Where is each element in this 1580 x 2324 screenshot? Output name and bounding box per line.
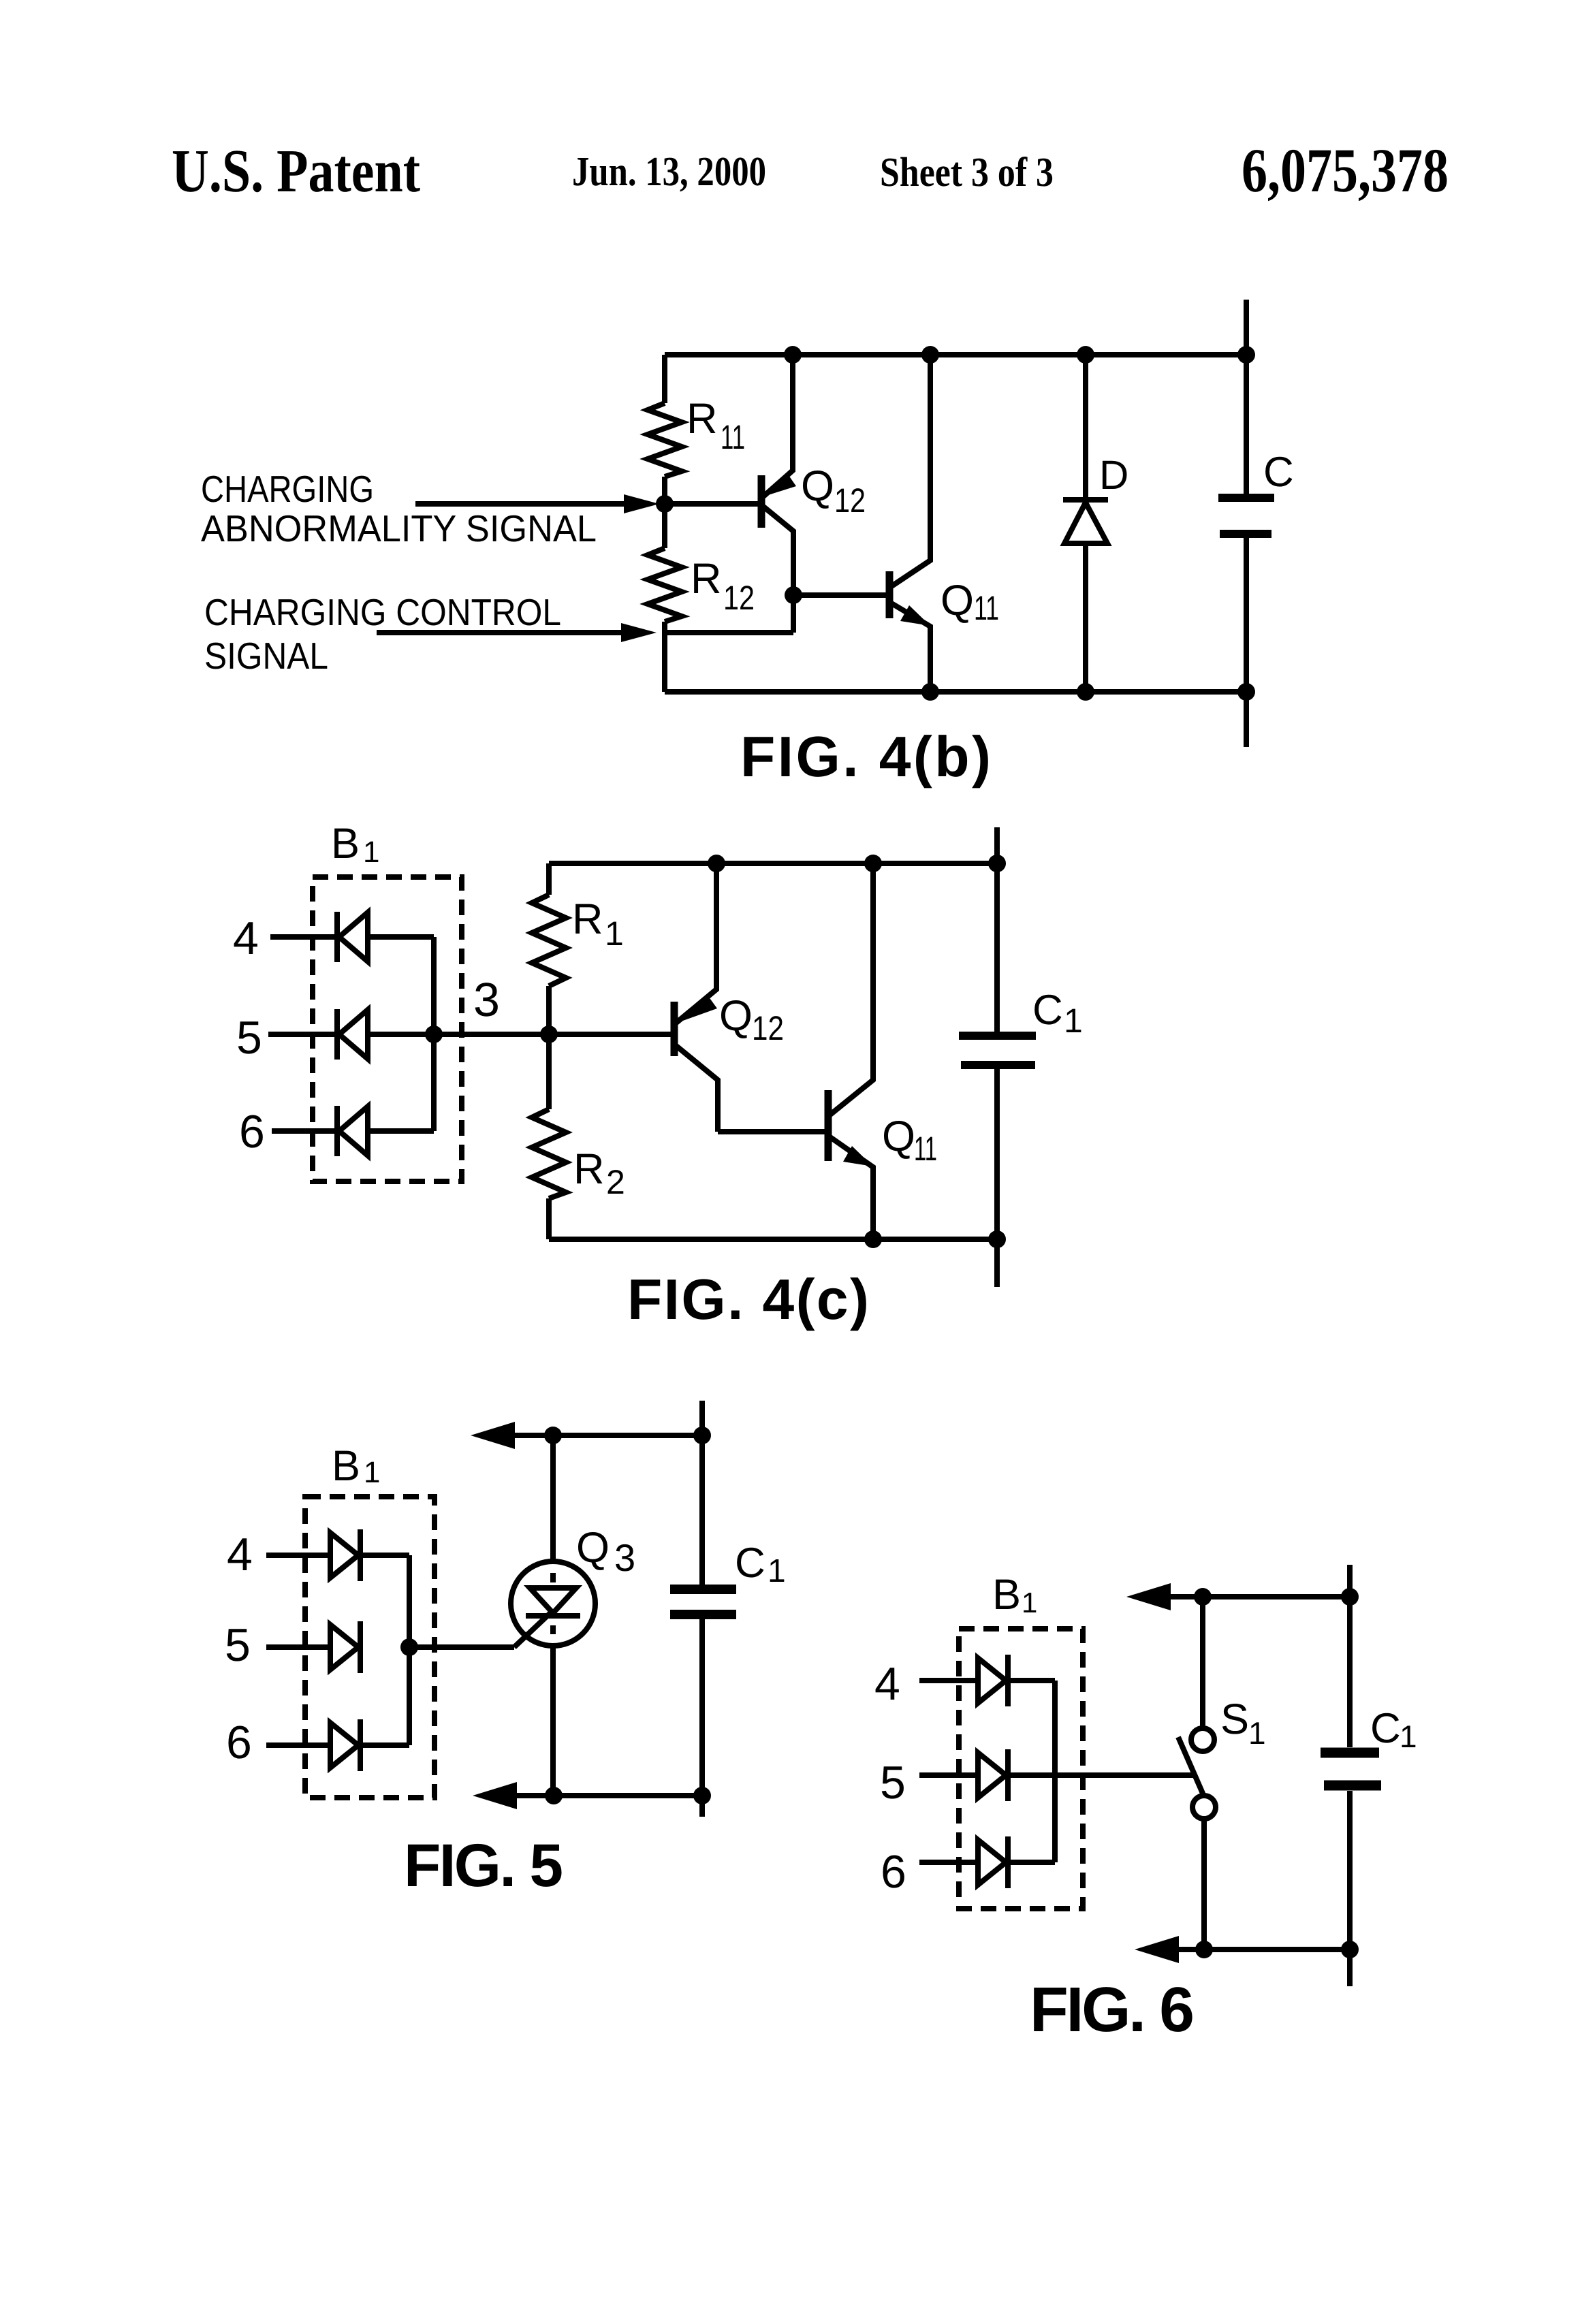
svg-text:1: 1 xyxy=(1248,1715,1266,1751)
svg-text:B: B xyxy=(331,820,360,867)
node: abnormality junction xyxy=(656,495,674,513)
node: Q3 top junction xyxy=(544,1427,562,1444)
svg-text:Jun. 13, 2000: Jun. 13, 2000 xyxy=(572,149,766,195)
wire pin 4 xyxy=(919,1678,978,1683)
wire: diode a output xyxy=(360,1553,409,1558)
wire: left vertical upper lead xyxy=(662,355,667,403)
wire: charging abnormality signal input with arrow xyxy=(415,501,627,507)
svg-text:C: C xyxy=(1370,1705,1401,1752)
wire pin 4 xyxy=(270,934,335,940)
node: Q11 collector on top rail xyxy=(864,855,882,872)
svg-text:ABNORMALITY SIGNAL: ABNORMALITY SIGNAL xyxy=(201,507,597,550)
node: top rail right xyxy=(1341,1588,1359,1606)
resistor R2 xyxy=(532,1109,566,1198)
wire: B1 output bus vertical xyxy=(1052,1681,1058,1862)
diode B1-b (anode left) xyxy=(978,1749,1008,1801)
svg-text:FIG. 5: FIG. 5 xyxy=(404,1831,563,1899)
wire: diode c output xyxy=(1008,1860,1055,1865)
svg-text:Q: Q xyxy=(576,1524,610,1572)
node: Q12 emitter on top rail xyxy=(784,346,802,364)
diode B1-a (anode left) xyxy=(330,1529,360,1581)
node: D top on rail xyxy=(1077,346,1094,364)
node: bottom rail right xyxy=(693,1787,711,1804)
label: CHARGING CONTROL SIGNAL xyxy=(204,591,561,677)
label B1 xyxy=(331,820,379,869)
svg-text:U.S. Patent: U.S. Patent xyxy=(172,138,420,205)
svg-text:4: 4 xyxy=(227,1529,253,1580)
resistor R11 xyxy=(648,403,682,477)
wire: bottom rail with left arrow xyxy=(1173,1947,1350,1952)
label: CHARGING ABNORMALITY SIGNAL xyxy=(201,468,597,550)
wire: control junction to Q12 collector foot xyxy=(665,630,793,635)
svg-text:1: 1 xyxy=(768,1553,786,1589)
svg-text:1: 1 xyxy=(605,914,624,953)
resistor R1 xyxy=(532,895,566,986)
svg-text:4: 4 xyxy=(874,1658,900,1710)
node: C top on rail xyxy=(1237,346,1255,364)
wire: R1 to node xyxy=(546,986,552,1034)
svg-text:11: 11 xyxy=(721,418,745,456)
svg-text:12: 12 xyxy=(723,579,755,617)
svg-text:R: R xyxy=(572,895,603,943)
svg-text:CHARGING CONTROL: CHARGING CONTROL xyxy=(204,591,561,633)
transistor Q12 (pnp) xyxy=(674,863,784,1132)
diode B1-a (cathode left) xyxy=(337,912,368,962)
svg-text:2: 2 xyxy=(606,1163,625,1201)
switch S1 xyxy=(1178,1597,1266,1949)
svg-text:B: B xyxy=(332,1442,360,1490)
wire: B1 output bus vertical xyxy=(431,937,437,1131)
wire pin 5 xyxy=(919,1772,978,1778)
wire: diode a output xyxy=(1008,1678,1055,1683)
node: C1 bottom xyxy=(988,1230,1006,1248)
wire: node to Q12 base xyxy=(665,501,759,507)
node: B1 common node xyxy=(425,1025,443,1043)
svg-text:R: R xyxy=(573,1145,605,1193)
svg-text:Q: Q xyxy=(941,577,974,624)
transistor Q11 (npn) xyxy=(889,355,999,692)
diode B1-a (anode left) xyxy=(978,1655,1008,1706)
wire pin 5 xyxy=(268,1032,335,1037)
svg-text:Sheet 3 of 3: Sheet 3 of 3 xyxy=(880,150,1054,195)
svg-text:FIG. 6: FIG. 6 xyxy=(1030,1974,1195,2045)
diode B1-c (cathode left) xyxy=(337,1106,368,1156)
node: C1 top xyxy=(988,855,1006,872)
svg-text:CHARGING: CHARGING xyxy=(201,468,374,510)
svg-text:5: 5 xyxy=(880,1757,906,1809)
wire: diode c output xyxy=(368,1128,434,1134)
wire: bottom rail xyxy=(549,1237,997,1242)
node: B1 common node xyxy=(400,1638,418,1656)
node: Q11 emitter on bottom rail xyxy=(921,683,939,701)
wire: Q3 cathode down xyxy=(550,1646,556,1796)
resistor R12 xyxy=(648,548,682,622)
wire: bottom rail with left arrow xyxy=(511,1793,702,1798)
svg-text:11: 11 xyxy=(914,1130,937,1168)
node: switch bottom junction xyxy=(1195,1941,1213,1958)
wire pin 6 xyxy=(919,1860,978,1865)
svg-text:6,075,378: 6,075,378 xyxy=(1242,136,1449,205)
svg-text:FIG. 4(c): FIG. 4(c) xyxy=(627,1267,869,1331)
node: Q12 collector / Q11 base junction xyxy=(785,586,802,604)
wire: top rail xyxy=(665,352,1246,357)
wire: node 3 to resistor chain xyxy=(434,1032,549,1037)
wire: R2 to bottom rail xyxy=(546,1198,552,1239)
thyristor Q3 xyxy=(511,1524,635,1647)
node: switch top junction xyxy=(1194,1588,1212,1606)
capacitor C1 xyxy=(1321,1565,1417,1986)
wire: diode c output xyxy=(360,1742,409,1748)
svg-text:6: 6 xyxy=(239,1106,265,1158)
wire: lead R12 to control junction xyxy=(662,622,667,633)
wire: top rail with left arrow xyxy=(509,1433,702,1438)
wire: diode a output xyxy=(368,934,434,940)
node: Q3 bottom junction xyxy=(545,1787,563,1804)
label B1 xyxy=(332,1442,380,1490)
node: Q11 collector on top rail xyxy=(921,346,939,364)
wire pin 5 xyxy=(266,1644,330,1650)
diode block B1 dashed box xyxy=(305,1497,434,1798)
svg-text:1: 1 xyxy=(1064,1002,1083,1040)
svg-text:12: 12 xyxy=(834,481,866,520)
wire: top rail with left arrow xyxy=(1165,1594,1350,1599)
wire: lead node to R12 xyxy=(662,504,667,548)
wire pin 6 xyxy=(272,1128,335,1134)
wire: Q12 collector to Q11 base xyxy=(793,592,887,598)
label B1 xyxy=(992,1571,1037,1619)
capacitor C1 xyxy=(959,827,1083,1287)
node: bottom rail right xyxy=(1341,1941,1359,1958)
transistor Q11 (npn) xyxy=(828,863,937,1239)
wire pin 4 xyxy=(266,1553,330,1558)
diode B1-b (cathode left) xyxy=(337,1009,368,1060)
wire: R chain top lead xyxy=(546,863,552,895)
node: Q12 emitter on top rail xyxy=(708,855,725,872)
svg-text:1: 1 xyxy=(1400,1719,1417,1754)
wire: diode b output xyxy=(368,1032,434,1037)
wire: output to switch blade xyxy=(1008,1772,1193,1778)
capacitor C xyxy=(1218,300,1294,747)
svg-text:C: C xyxy=(1032,987,1063,1034)
svg-text:SIGNAL: SIGNAL xyxy=(204,635,328,677)
capacitor C1 xyxy=(670,1401,786,1817)
wire: B1 output bus vertical xyxy=(407,1555,412,1745)
svg-text:12: 12 xyxy=(752,1009,784,1047)
wire: charging control signal input with arrow xyxy=(377,630,624,635)
node: top rail right xyxy=(693,1427,711,1444)
transistor Q12 (pnp) xyxy=(761,355,866,633)
diode block B1 dashed box xyxy=(959,1629,1083,1909)
svg-text:6: 6 xyxy=(226,1717,252,1768)
svg-text:5: 5 xyxy=(225,1619,251,1671)
svg-text:4: 4 xyxy=(233,912,259,964)
svg-text:B: B xyxy=(992,1571,1021,1619)
wire: top rail xyxy=(549,861,997,866)
svg-text:3: 3 xyxy=(473,973,500,1026)
wire: node to Q3 gate xyxy=(409,1644,514,1650)
wire: lead R11 to node xyxy=(662,477,667,504)
node: Q11 emitter on bottom rail xyxy=(864,1230,882,1248)
svg-text:Q: Q xyxy=(719,992,753,1040)
wire: Q3 anode up xyxy=(550,1435,556,1561)
svg-text:Q: Q xyxy=(801,462,834,510)
svg-text:3: 3 xyxy=(614,1536,635,1579)
svg-text:R: R xyxy=(686,395,718,443)
diode B1-c (anode left) xyxy=(330,1719,360,1771)
svg-text:S: S xyxy=(1220,1696,1249,1743)
diode B1-b (anode left) xyxy=(330,1621,360,1673)
wire: bottom rail xyxy=(665,689,1246,695)
svg-text:D: D xyxy=(1099,452,1128,498)
header xyxy=(172,136,1449,205)
svg-text:1: 1 xyxy=(364,1456,380,1489)
wire pin 6 xyxy=(266,1742,330,1748)
svg-text:1: 1 xyxy=(363,835,379,869)
node: D bottom on rail xyxy=(1077,683,1094,701)
diode D xyxy=(1063,355,1128,692)
wire: Q12 collector to Q11 base xyxy=(718,1129,825,1134)
diode block B1 dashed box xyxy=(313,877,462,1181)
node: base node on R chain xyxy=(540,1025,558,1043)
wire: left vertical to bottom rail xyxy=(662,633,667,692)
svg-text:Q: Q xyxy=(882,1113,915,1160)
svg-text:C: C xyxy=(1263,449,1294,496)
svg-text:11: 11 xyxy=(974,589,999,627)
svg-text:6: 6 xyxy=(881,1846,906,1898)
wire: base node to Q12 base xyxy=(549,1032,671,1037)
wire: node to R2 xyxy=(546,1034,552,1109)
svg-text:5: 5 xyxy=(236,1012,262,1064)
diode B1-c (anode left) xyxy=(978,1836,1008,1888)
svg-text:R: R xyxy=(691,555,722,603)
node: C bottom on rail xyxy=(1237,683,1255,701)
svg-text:FIG. 4(b): FIG. 4(b) xyxy=(740,725,991,789)
svg-text:C: C xyxy=(735,1540,765,1587)
svg-text:1: 1 xyxy=(1022,1587,1037,1619)
